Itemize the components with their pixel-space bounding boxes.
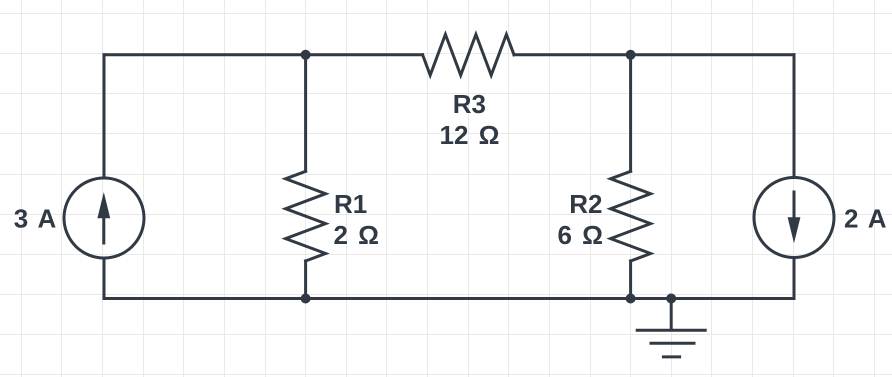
arrow head I1 (up) [97,192,110,218]
wire: R2 bottom lead [629,261,632,299]
resistor R2 (vertical zigzag) [611,171,651,261]
current source I2 circle [754,178,834,258]
wire: R1 top lead [304,55,307,172]
current source I1 circle [64,178,144,258]
junction node: bottom of R1 [301,294,311,304]
ground stem [670,299,673,331]
svg-text:12 Ω: 12 Ω [440,120,500,150]
arrow shaft I2 (down) [793,192,796,219]
resistor R1 (vertical zigzag) [286,171,326,261]
arrow head I2 (down) [788,217,801,243]
wire: left vertical lower segment [103,259,106,299]
wire: right vertical upper segment [793,55,796,177]
svg-text:R2: R2 [569,189,602,219]
svg-text:2 Ω: 2 Ω [334,220,380,250]
ground bar 2 [651,342,694,345]
junction node: ground tap [666,294,676,304]
svg-text:R1: R1 [334,189,367,219]
wire: top-left horizontal segment [104,53,423,56]
wire: left vertical upper segment [103,55,106,177]
junction node: bottom of R2 [626,294,636,304]
wire: right vertical lower segment [793,259,796,299]
svg-text:R3: R3 [453,89,486,119]
svg-text:3 A: 3 A [14,204,57,234]
ground bar 1 [637,329,705,332]
wire: R1 bottom lead [304,261,307,299]
wire: bottom horizontal [104,297,794,300]
wire: top-right horizontal segment [514,53,794,56]
svg-text:6 Ω: 6 Ω [557,220,603,250]
junction node: top of R2 [626,50,636,60]
arrow shaft I1 (up) [102,216,105,243]
wire: R2 top lead [629,55,632,172]
resistor R3 (horizontal zigzag) [423,34,514,75]
svg-text:2 A: 2 A [844,204,887,234]
ground bar 3 [663,355,679,358]
junction node: top of R1 [301,50,311,60]
